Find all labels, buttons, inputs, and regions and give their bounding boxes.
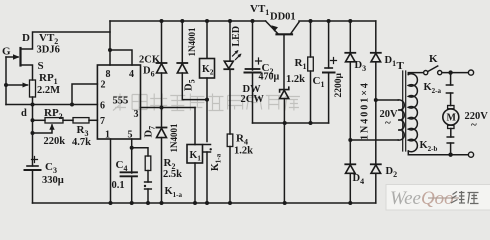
watermark hangzhou company text — [113, 94, 300, 111]
svg-text:2CW: 2CW — [241, 94, 265, 105]
relay contact K1-a (bottom) — [145, 181, 152, 183]
junction motor branch / AC bottom — [448, 153, 452, 157]
wire AC bottom tap — [350, 139, 398, 141]
wire top rail left segment — [110, 20, 266, 22]
junction top rail / C1 column — [327, 19, 331, 23]
svg-text:6: 6 — [100, 101, 105, 112]
svg-text:D: D — [22, 32, 30, 44]
svg-text:~: ~ — [471, 119, 477, 131]
wire left column — [32, 105, 34, 167]
transformer T secondary winding — [398, 100, 404, 140]
diode D1 — [375, 21, 377, 52]
capacitor C2 470u — [252, 21, 254, 70]
svg-text:5: 5 — [128, 130, 133, 141]
diode D7 1N4001 — [157, 127, 167, 129]
svg-text:0.1: 0.1 — [112, 180, 125, 191]
junction node d (pin6 row / RP1) — [31, 103, 35, 107]
LED — [229, 21, 231, 61]
RP1 wiper arrowhead — [23, 83, 29, 88]
junction left column / RP2 — [31, 118, 35, 122]
capacitor C4 0.1 — [121, 171, 138, 173]
wire gate column — [5, 57, 7, 105]
junction R1 bottom — [309, 121, 313, 125]
zener DW 2CW — [280, 87, 289, 92]
wire pin1 — [110, 139, 112, 203]
svg-text:1N4001×4: 1N4001×4 — [360, 81, 371, 140]
relay coil K2 — [206, 21, 208, 58]
relay contact K1-a (vertical, x207) — [204, 144, 211, 146]
relay contact K2-a — [450, 73, 452, 85]
wire supply riser x110 (pin8 / drain junction) — [109, 21, 111, 65]
svg-text:K: K — [429, 53, 438, 65]
resistor RP2 — [45, 118, 63, 123]
svg-text:470µ: 470µ — [259, 72, 280, 83]
junction bottom rail / K1-a contact — [205, 201, 209, 205]
resistor R2 2.5k — [132, 148, 148, 156]
svg-text:~: ~ — [385, 117, 391, 129]
resistor R4 1.2k — [227, 134, 233, 147]
junction top rail / LED column — [228, 19, 232, 23]
diode D5 1N4001 — [181, 21, 183, 63]
diode triangles and arrowheads — [13, 25, 278, 130]
junction switch output node — [448, 70, 452, 74]
junction bottom rail / D7 — [160, 201, 164, 205]
svg-text:2CK: 2CK — [139, 55, 161, 66]
junction bottom rail / K1-a R2 branch — [146, 201, 150, 205]
junction D1-D2 column / secondary top — [374, 98, 378, 102]
junction top rail / D5 column — [180, 19, 184, 23]
gate arrowhead VT2 — [13, 54, 20, 59]
svg-text:DD01: DD01 — [270, 12, 296, 23]
junction D3-D4 column / secondary bottom — [348, 138, 352, 142]
op-amp U1 555 box — [97, 65, 140, 139]
svg-text:G: G — [2, 46, 11, 58]
junction pin8/pin4 supply — [108, 48, 112, 52]
junction pin2 / pin6 row — [70, 103, 74, 107]
svg-text:555: 555 — [113, 96, 129, 107]
svg-text:2.2M: 2.2M — [37, 85, 60, 96]
capacitor C1 2200u — [328, 21, 330, 68]
junction pin3 row / D6-D7 — [160, 106, 164, 110]
contact blade dot K1-a bottom — [144, 185, 146, 187]
resistor R3 — [73, 118, 89, 123]
RP2 wiper arrowhead — [49, 124, 54, 130]
hollow diode triangles — [157, 53, 381, 173]
relay coil K1 — [194, 108, 196, 145]
junction top rail / D3 column — [348, 19, 352, 23]
diode D4 — [345, 163, 355, 165]
svg-text:8: 8 — [106, 69, 111, 80]
svg-text:3DJ6: 3DJ6 — [37, 45, 60, 56]
junction left column / RP2 wiper — [31, 131, 35, 135]
wire pin6 row — [6, 104, 97, 106]
svg-text:1N4001: 1N4001 — [169, 123, 179, 152]
transistor VT1 DD01 — [266, 21, 278, 34]
svg-text:330µ: 330µ — [42, 175, 64, 186]
junction K2 coil / D5 anode — [205, 98, 209, 102]
svg-text:3: 3 — [134, 109, 139, 120]
switch K left terminal circle — [424, 71, 428, 75]
junction bottom rail / zener ground — [283, 201, 287, 205]
svg-text:1N4001: 1N4001 — [187, 27, 197, 56]
svg-text:2.5k: 2.5k — [163, 169, 182, 180]
wire bottom rail — [33, 202, 376, 204]
capacitor C3 330u — [27, 165, 38, 167]
watermark WeeQoo box — [386, 185, 490, 211]
svg-text:2: 2 — [101, 80, 106, 91]
transistor Q VT2 3DJ6 — [19, 48, 21, 66]
junction top rail / R1 column — [309, 19, 313, 23]
junction pin5 / R2 / C4 — [130, 146, 134, 150]
contact blade dot K1-a vertical — [210, 148, 212, 150]
svg-text:S: S — [38, 60, 44, 72]
AC input terminal top — [468, 70, 473, 75]
wire top rail right segment — [299, 20, 376, 22]
svg-text:1: 1 — [105, 130, 110, 141]
svg-text:T: T — [397, 60, 405, 72]
relay contact K2-b — [447, 136, 453, 138]
diode D2 — [371, 163, 381, 165]
diode D3 — [349, 21, 351, 52]
junction top rail / K2 column — [205, 19, 209, 23]
wire AC top tap — [376, 99, 398, 101]
svg-text:1.2k: 1.2k — [234, 146, 253, 157]
svg-text:LED: LED — [231, 26, 242, 47]
junction bottom rail / D4 — [348, 201, 352, 205]
junction bottom rail / pin1 — [109, 201, 113, 205]
junction bottom rail / K1 coil — [193, 201, 197, 205]
LED arrowheads — [235, 50, 239, 54]
wire pin3 row — [141, 107, 196, 109]
wire pin4 branch — [110, 50, 132, 65]
wire pin5 — [131, 139, 133, 173]
svg-text:d: d — [21, 108, 27, 119]
junction bottom rail / C4 — [130, 201, 134, 205]
transformer core — [403, 71, 406, 151]
transformer T primary winding — [408, 74, 417, 152]
resistor R1 1.2k — [310, 21, 312, 57]
wire pin2 jog — [72, 84, 97, 105]
junction bottom rail / R4 — [228, 201, 232, 205]
svg-text:4.7k: 4.7k — [72, 137, 91, 148]
VT1 emitter arrowhead — [271, 25, 278, 31]
svg-text:4: 4 — [129, 69, 134, 80]
resistor RP1 — [30, 80, 36, 97]
junction top rail / D6 column — [160, 19, 164, 23]
junction gate column / RP1 wiper — [4, 83, 8, 87]
wire zener ground row y123 — [253, 122, 329, 124]
switch/terminal circles — [424, 70, 474, 157]
motor M — [448, 106, 454, 109]
diode D6 2CK — [161, 21, 163, 63]
switch K — [428, 66, 438, 72]
junction top rail / C2 column — [251, 19, 255, 23]
svg-text:7: 7 — [100, 116, 105, 127]
svg-text:1.2k: 1.2k — [286, 74, 305, 85]
junction zener ground row — [283, 121, 287, 125]
svg-text:M: M — [447, 113, 457, 124]
AC input terminal bottom — [468, 152, 473, 157]
svg-text:220k: 220k — [44, 136, 66, 147]
svg-text:2200µ: 2200µ — [334, 73, 344, 98]
switch K right terminal circle — [438, 71, 442, 75]
